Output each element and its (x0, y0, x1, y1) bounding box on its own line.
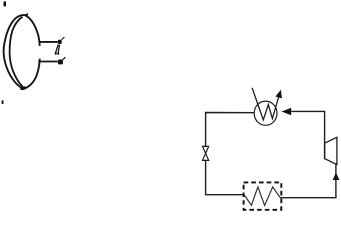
bottom apex blob (20, 86, 27, 91)
tank outer wall (egg shape with right-side opening) (4, 15, 40, 89)
apex dot on tank top (24, 13, 29, 17)
top valve handle tick (62, 37, 65, 40)
stand feet (55, 52, 57, 54)
W coil inside condenser (252, 88, 279, 120)
bottom pipe valve body (58, 60, 63, 65)
wire: top-left horizontal pipe (206, 113, 255, 147)
wire: left lower + bottom-left (206, 160, 245, 194)
tick mark bottom-left (2, 100, 4, 104)
evaporator dashed enclosure (244, 182, 282, 209)
flow arrow into condenser (left-pointing) (282, 108, 292, 115)
wire: bottom-right horizontal (280, 165, 336, 198)
tank inner left wall (second arc) (10, 17, 23, 87)
top pipe valve body (58, 40, 62, 44)
wire: compressor discharge up + top-right horizontal (291, 111, 324, 158)
top pipe (39, 41, 58, 43)
condenser circle (254, 101, 277, 125)
top valve stand legs (56, 45, 60, 53)
expansion valve (hourglass) (203, 146, 209, 160)
flow arrow up into compressor (333, 173, 340, 180)
tick mark top-left (4, 1, 7, 6)
compressor (trapezoid) (325, 137, 337, 164)
bottom pipe (38, 61, 58, 63)
evaporator heater coil (resistor zigzag) (244, 187, 280, 206)
bottom valve handle tick (63, 57, 66, 60)
arrowhead on W stroke (up-right) (275, 90, 282, 99)
